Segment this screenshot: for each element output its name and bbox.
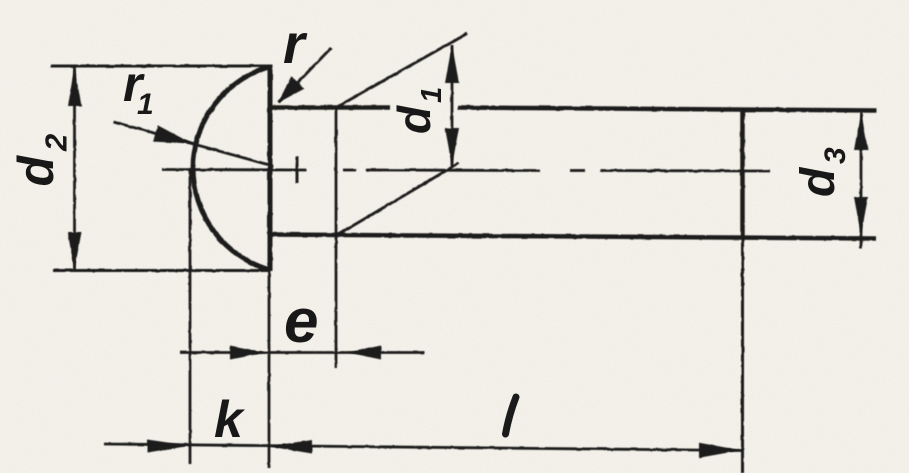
label l (drawn stroke) xyxy=(506,397,517,434)
d3 dimension line xyxy=(860,111,863,249)
e arrowhead left (points right) xyxy=(230,346,266,360)
label d2 (rotated) xyxy=(8,134,74,187)
e dimension line xyxy=(180,351,424,354)
d1 arrowhead top xyxy=(445,45,459,83)
svg-text:k: k xyxy=(214,391,246,449)
centerline dot 2 xyxy=(570,169,585,172)
r leader line xyxy=(279,48,332,103)
shank top outline (right of d1 label gap, extends as d3 extension) xyxy=(458,108,876,111)
r leader arrowhead xyxy=(279,76,305,102)
d1 dimension line xyxy=(451,45,454,166)
rivet head arc xyxy=(193,67,269,270)
d2 arrowhead bottom xyxy=(68,232,82,270)
rivet head flat face (vertical) xyxy=(268,67,273,272)
label d1 (rotated) xyxy=(388,87,448,134)
centerline dash 3 xyxy=(600,169,770,172)
d2 bottom extension line xyxy=(53,269,269,272)
svg-text:1: 1 xyxy=(416,87,448,103)
r1 leader line xyxy=(114,122,273,166)
k arrowhead left (points right) xyxy=(147,440,190,453)
shank top outline (left of d1 label gap) xyxy=(270,105,390,110)
d2 arrowhead top xyxy=(68,68,82,107)
shank end extension line below xyxy=(741,237,744,473)
svg-text:e: e xyxy=(284,287,318,356)
d1 bottom oblique extension xyxy=(338,163,459,235)
k/l shared arrowhead (points left) xyxy=(269,440,313,454)
d1 arrowhead bottom xyxy=(445,128,459,166)
centerline dash 2 xyxy=(366,169,540,172)
d2 dimension line xyxy=(73,67,76,270)
center mark tick xyxy=(296,156,299,183)
label d3 (rotated) xyxy=(792,147,852,197)
shank bottom outline (extends as d3 extension) xyxy=(270,235,876,239)
svg-text:2: 2 xyxy=(39,134,74,152)
svg-text:d: d xyxy=(8,155,64,187)
r1 leader arrowhead xyxy=(153,125,192,143)
svg-text:d: d xyxy=(792,166,845,197)
svg-text:1: 1 xyxy=(137,88,154,121)
label r1 xyxy=(123,56,154,121)
centerline dash 1 xyxy=(162,168,306,171)
d3 arrowhead top xyxy=(854,112,868,150)
extension line below head face (k right / l left) xyxy=(268,270,271,468)
d1 top oblique extension xyxy=(337,34,467,108)
e arrowhead right (points left) xyxy=(348,346,381,360)
e right extension line xyxy=(335,108,338,368)
k extension line at head tangent xyxy=(189,168,192,464)
centerline dot 1 xyxy=(343,169,356,172)
svg-text:d: d xyxy=(388,105,440,134)
d3 arrowhead bottom xyxy=(854,197,868,235)
l arrowhead right (points right) xyxy=(699,443,741,458)
svg-text:3: 3 xyxy=(819,147,852,164)
k and l dimension line xyxy=(104,444,742,451)
shank end face (vertical) xyxy=(740,108,745,237)
d2 top extension line xyxy=(51,65,273,68)
svg-text:r: r xyxy=(283,12,308,75)
